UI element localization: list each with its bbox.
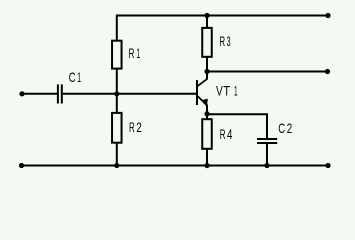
wire emitter node to C2 branch xyxy=(207,114,267,138)
label C1 xyxy=(69,69,81,85)
wire R1 bottom to input junction xyxy=(116,69,118,94)
svg-text:1: 1 xyxy=(136,45,140,61)
wire R3 bottom to collector node xyxy=(206,57,208,72)
wire from top rail down to R1 xyxy=(116,15,118,41)
terminal dot bottom-right xyxy=(325,163,330,168)
wire from top rail junction down to R3 xyxy=(206,16,208,28)
wire bottom ground rail xyxy=(22,165,329,167)
svg-text:C: C xyxy=(69,69,76,85)
junction input / bias divider xyxy=(114,91,119,96)
junction ground / C2 xyxy=(264,163,269,168)
label R2 xyxy=(129,119,142,135)
capacitor C2 xyxy=(257,139,277,143)
terminal dot output right xyxy=(325,69,330,74)
svg-text:3: 3 xyxy=(227,33,231,49)
transistor VT1 xyxy=(197,72,208,114)
svg-text:C: C xyxy=(278,120,285,136)
wire emitter node down to R4 xyxy=(206,114,208,119)
label R4 xyxy=(220,126,233,142)
label C2 xyxy=(278,120,292,136)
svg-text:R: R xyxy=(220,126,226,142)
wire C1 to transistor base xyxy=(63,93,196,95)
junction emitter node xyxy=(204,111,209,116)
resistor R4 xyxy=(202,119,212,149)
wire junction down to R2 xyxy=(116,94,118,113)
label R3 xyxy=(219,33,230,49)
junction ground / R2 xyxy=(114,163,119,168)
svg-text:2: 2 xyxy=(136,119,142,135)
svg-text:R: R xyxy=(129,45,135,61)
svg-text:T: T xyxy=(223,83,230,99)
terminal dot top-right supply xyxy=(325,13,330,18)
label VT1 xyxy=(216,83,238,99)
terminal dot input left xyxy=(19,91,24,96)
terminal dot bottom-left xyxy=(19,163,24,168)
junction top rail / R3 branch xyxy=(204,13,209,18)
wire R2 bottom to ground rail xyxy=(116,143,118,166)
junction ground / R4 xyxy=(204,163,209,168)
svg-text:2: 2 xyxy=(287,120,293,136)
svg-text:1: 1 xyxy=(234,83,238,99)
svg-text:1: 1 xyxy=(77,69,81,85)
svg-text:R: R xyxy=(219,33,225,49)
svg-text:V: V xyxy=(216,83,223,99)
resistor R3 xyxy=(202,28,212,57)
wire C2 bottom to ground rail xyxy=(266,144,268,166)
resistor R2 xyxy=(112,113,122,143)
wire top supply rail xyxy=(117,15,328,17)
junction collector / output xyxy=(204,69,209,74)
resistor R1 xyxy=(112,41,122,69)
wire output to right terminal xyxy=(207,71,328,73)
wire input to C1 xyxy=(22,93,57,95)
svg-text:R: R xyxy=(129,119,135,135)
capacitor C1 xyxy=(58,84,62,103)
svg-text:4: 4 xyxy=(227,126,233,142)
wire R4 bottom to ground rail xyxy=(206,149,208,166)
label R1 xyxy=(129,45,141,61)
